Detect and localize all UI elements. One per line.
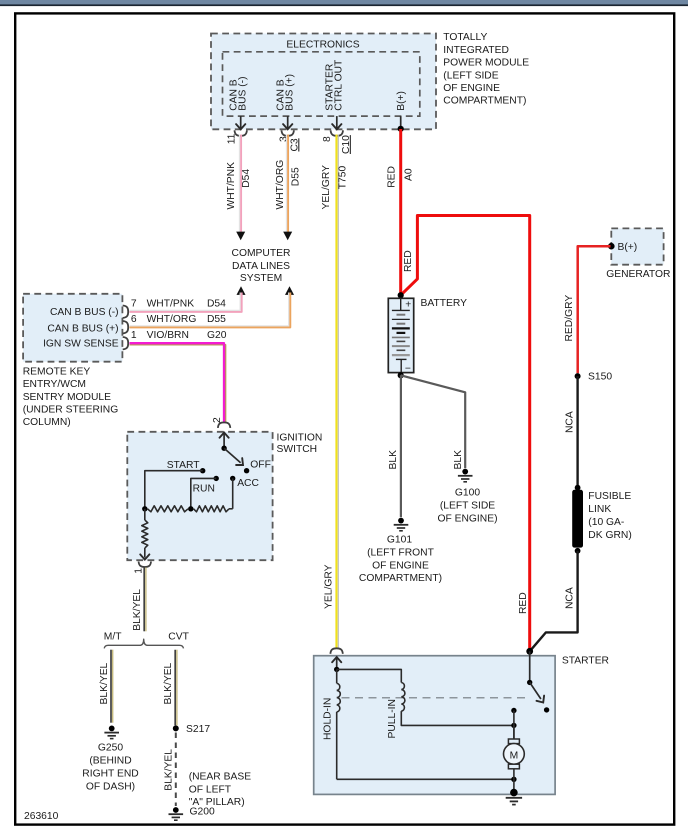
node resistor mid [188, 506, 193, 511]
svg-text:(LEFT SIDE: (LEFT SIDE [443, 70, 498, 81]
starter coil feed arrow [332, 657, 341, 662]
svg-text:RUN: RUN [193, 484, 215, 495]
mechanical link (dashed) [342, 697, 527, 699]
svg-text:+: + [405, 299, 411, 310]
ignition switch blade to OFF [224, 448, 241, 463]
svg-text:(10 GA-: (10 GA- [588, 517, 624, 528]
pull-in coil L2 [337, 669, 402, 682]
svg-text:G101: G101 [387, 535, 412, 546]
svg-text:COLUMN): COLUMN) [23, 417, 71, 428]
remote pin 7 connector [123, 306, 129, 318]
svg-text:M/T: M/T [104, 632, 122, 643]
wire WHT/ORG from pin 3 [286, 135, 288, 234]
svg-text:SENTRY MODULE: SENTRY MODULE [23, 392, 111, 403]
svg-text:A0: A0 [403, 168, 414, 181]
wire RED battery to starter branch [401, 216, 530, 651]
svg-text:INTEGRATED: INTEGRATED [443, 45, 509, 56]
wire ACC down [232, 478, 234, 508]
svg-text:1: 1 [134, 568, 145, 574]
node ignition common [221, 446, 226, 451]
top window bar [0, 0, 688, 5]
svg-text:HOLD-IN: HOLD-IN [322, 698, 333, 740]
svg-text:WHT/PNK: WHT/PNK [226, 162, 237, 210]
svg-text:D55: D55 [290, 167, 301, 186]
svg-text:ACC: ACC [237, 478, 259, 489]
contact START [200, 468, 205, 473]
wire BLK/YEL dashed to G200 [175, 733, 177, 807]
svg-text:START: START [167, 460, 201, 471]
svg-text:OFF: OFF [250, 459, 271, 470]
svg-text:S217: S217 [186, 724, 210, 735]
svg-text:IGN SW SENSE: IGN SW SENSE [43, 339, 119, 350]
wire WHT/ORG from pin 6 [130, 293, 289, 326]
svg-text:DK GRN): DK GRN) [588, 530, 631, 541]
node S217 [173, 725, 179, 731]
node switch pivot [527, 680, 532, 685]
svg-text:RED: RED [387, 166, 398, 188]
svg-text:BLK: BLK [453, 450, 464, 470]
wire START to resistor [145, 471, 203, 509]
svg-text:S150: S150 [588, 372, 612, 383]
node starter feed junction [526, 648, 533, 655]
TIPM pin 8 connector [331, 130, 343, 136]
svg-text:WHT/ORG: WHT/ORG [275, 160, 286, 210]
wire BLK to G100 [401, 375, 466, 468]
wire BLK/YEL M/T branch [110, 650, 112, 723]
svg-text:STARTER: STARTER [562, 655, 609, 666]
svg-text:G250: G250 [98, 743, 123, 754]
svg-text:D54: D54 [241, 169, 252, 188]
node battery negative [398, 372, 404, 378]
svg-text:CVT: CVT [168, 632, 189, 643]
starter yellow-wire connector [330, 648, 342, 654]
ground G100 [462, 469, 468, 475]
node coil feed [334, 667, 339, 672]
svg-text:8: 8 [322, 136, 333, 142]
svg-text:M: M [510, 750, 519, 761]
ground G200 [173, 807, 179, 813]
svg-text:BLK/YEL: BLK/YEL [99, 662, 110, 704]
TIPM pin 8 arrow [336, 116, 338, 128]
svg-text:LINK: LINK [588, 504, 611, 515]
generator box [611, 228, 663, 264]
node S150 [575, 373, 581, 379]
node generator B(+) [608, 243, 615, 250]
svg-text:D55: D55 [207, 314, 226, 325]
svg-text:BLK: BLK [388, 450, 399, 470]
svg-text:(LEFT FRONT: (LEFT FRONT [367, 547, 434, 558]
svg-text:D54: D54 [207, 298, 226, 309]
svg-text:OF DASH): OF DASH) [86, 781, 135, 792]
svg-text:(LEFT SIDE: (LEFT SIDE [440, 501, 495, 512]
arrow up into data lines (left) [237, 286, 246, 295]
svg-text:ELECTRONICS: ELECTRONICS [286, 40, 359, 51]
svg-text:SWITCH: SWITCH [277, 444, 318, 455]
wire WHT/PNK from pin 7 [130, 293, 241, 311]
svg-text:RED/GRY: RED/GRY [564, 295, 575, 342]
svg-text:(UNDER STEERING: (UNDER STEERING [23, 404, 119, 415]
svg-text:FUSIBLE: FUSIBLE [588, 491, 631, 502]
arrow into data lines (right) [283, 232, 292, 241]
TIPM module box (ELECTRONICS outer) [211, 34, 436, 130]
remote pin 6 connector [123, 321, 129, 333]
resistor R3 (vertical) [144, 509, 146, 520]
node motor bottom junction [511, 777, 516, 782]
svg-text:2: 2 [212, 417, 223, 423]
svg-text:BUS (+): BUS (+) [285, 74, 296, 111]
svg-text:REMOTE KEY: REMOTE KEY [23, 367, 91, 378]
wire NCA upper [576, 376, 578, 486]
svg-text:BLK/YEL: BLK/YEL [132, 589, 143, 631]
splice brace M/T-CVT [104, 639, 183, 648]
svg-text:B(+): B(+) [618, 242, 638, 253]
svg-text:RIGHT END: RIGHT END [82, 768, 138, 779]
ground G101 [398, 518, 404, 524]
svg-text:PULL-IN: PULL-IN [387, 699, 398, 738]
svg-text:BLK/YEL: BLK/YEL [164, 749, 175, 791]
starter switch blade [530, 682, 541, 699]
wire BLK/YEL CVT branch [174, 650, 176, 726]
wire RED from B(+) to battery [399, 129, 402, 295]
svg-text:OF LEFT: OF LEFT [189, 784, 232, 795]
starter switch lead [529, 651, 531, 682]
ignition switch box [127, 432, 272, 560]
svg-text:RED: RED [518, 592, 529, 614]
svg-text:C3: C3 [289, 138, 300, 151]
TIPM pin 11 arrow [240, 116, 242, 128]
svg-text:BATTERY: BATTERY [421, 298, 468, 309]
svg-text:CTRL OUT: CTRL OUT [334, 59, 345, 111]
motor M1 [513, 711, 515, 740]
svg-text:CAN B BUS (+): CAN B BUS (+) [47, 324, 118, 335]
svg-text:COMPARTMENT): COMPARTMENT) [443, 96, 526, 107]
svg-text:7: 7 [131, 298, 137, 309]
node B(+) junction [398, 126, 404, 132]
svg-text:GENERATOR: GENERATOR [606, 269, 670, 280]
svg-text:C10: C10 [341, 135, 352, 154]
svg-text:COMPUTER: COMPUTER [232, 248, 291, 259]
TIPM pin 3 arrow [287, 116, 289, 128]
svg-text:ENTRY/WCM: ENTRY/WCM [23, 379, 86, 390]
svg-text:YEL/GRY: YEL/GRY [321, 165, 332, 210]
contact OFF [244, 468, 249, 473]
battery B1 [388, 298, 413, 372]
svg-text:BLK/YEL: BLK/YEL [163, 662, 174, 704]
svg-text:1: 1 [131, 330, 137, 341]
ignition pin 2 arrow [220, 433, 229, 438]
svg-text:BUS (-): BUS (-) [238, 76, 249, 110]
resistor R1 (start-run) [148, 506, 189, 512]
svg-text:TOTALLY: TOTALLY [443, 32, 487, 43]
node motor top [511, 708, 516, 713]
svg-text:(NEAR BASE: (NEAR BASE [189, 771, 252, 782]
svg-text:OF ENGINE): OF ENGINE) [437, 514, 497, 525]
node pull-in junction [511, 723, 516, 728]
node battery positive [398, 292, 404, 298]
contact RUN [214, 476, 219, 481]
resistor R2 (run-acc) [194, 506, 230, 512]
svg-text:COMPARTMENT): COMPARTMENT) [359, 573, 442, 584]
svg-text:T750: T750 [338, 166, 349, 190]
ignition pin 1 connector [139, 562, 151, 568]
TIPM pin 11 connector [235, 130, 247, 136]
svg-text:NCA: NCA [565, 587, 576, 609]
wire hold-in to ground [337, 778, 512, 780]
remote key module box [23, 294, 122, 362]
wire VIO/BRN from pin 1 to ignition switch [130, 345, 226, 424]
wire BLK to G101 [400, 375, 402, 517]
svg-text:POWER MODULE: POWER MODULE [443, 58, 529, 69]
svg-text:DATA LINES: DATA LINES [232, 261, 290, 272]
svg-text:CAN B BUS (-): CAN B BUS (-) [50, 307, 119, 318]
arrow up into data lines (right) [285, 286, 294, 295]
wire WHT/PNK from pin 11 [239, 135, 241, 234]
ignition pin 1 arrow [140, 554, 149, 559]
contact ACC [230, 476, 235, 481]
svg-text:RED: RED [403, 250, 414, 272]
svg-text:6: 6 [131, 314, 137, 325]
ground G250 [109, 726, 115, 732]
svg-text:G20: G20 [207, 330, 227, 341]
svg-text:263610: 263610 [24, 811, 59, 822]
svg-text:IGNITION: IGNITION [277, 433, 323, 444]
svg-text:"A" PILLAR): "A" PILLAR) [189, 797, 245, 808]
label TOTALLY INTEGRATED POWER MODULE [443, 32, 529, 107]
svg-text:−: − [405, 363, 411, 374]
svg-text:WHT/PNK: WHT/PNK [147, 298, 195, 309]
svg-text:NCA: NCA [565, 411, 576, 433]
wire YEL/GRY from pin 8 to starter [335, 135, 337, 649]
svg-text:VIO/BRN: VIO/BRN [147, 330, 189, 341]
ignition pin 2 connector [218, 422, 230, 428]
wire BLK/YEL ignition down [143, 568, 145, 632]
svg-text:(BEHIND: (BEHIND [89, 756, 131, 767]
svg-text:11: 11 [227, 133, 238, 144]
TIPM inner box [223, 52, 420, 116]
TIPM pin 3 connector [282, 130, 294, 136]
svg-text:WHT/ORG: WHT/ORG [147, 314, 197, 325]
svg-text:G100: G100 [455, 488, 480, 499]
wire RUN to resistor [191, 478, 216, 508]
contact switch lower [544, 707, 549, 712]
svg-text:OF ENGINE: OF ENGINE [443, 83, 500, 94]
svg-text:OF ENGINE: OF ENGINE [372, 560, 429, 571]
svg-text:B(+): B(+) [396, 91, 407, 111]
fusible link F1 [575, 485, 581, 491]
wire NCA lower [530, 551, 578, 652]
hold-in coil L1 [336, 669, 338, 683]
svg-text:YEL/GRY: YEL/GRY [324, 564, 335, 609]
svg-text:SYSTEM: SYSTEM [240, 273, 282, 284]
starter box [314, 656, 555, 795]
node resistor left [142, 506, 147, 511]
arrow into data lines (left) [236, 232, 245, 241]
remote pin 1 connector [123, 337, 129, 349]
starter ground [510, 789, 518, 797]
TIPM B(+) pin lead [400, 116, 402, 126]
wire RED/GRY generator to S150 [578, 246, 611, 373]
